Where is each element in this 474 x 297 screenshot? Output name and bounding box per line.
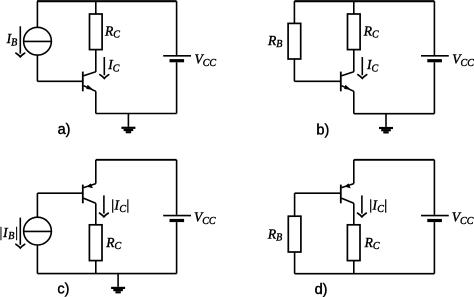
wire RB2 bottom <box>294 252 296 274</box>
wire bottom rail b <box>354 113 435 115</box>
wire top rail b <box>294 0 434 2</box>
wire RC3 bottom <box>95 261 97 274</box>
resistor RB1 <box>288 23 301 59</box>
wire top rail a <box>37 0 177 2</box>
current arrow IC4 <box>358 195 367 216</box>
wire emitter d <box>353 160 355 184</box>
resistor RC2 <box>348 14 361 50</box>
wire current source top a <box>36 1 38 27</box>
wire RB1 top <box>293 1 295 23</box>
ground c <box>111 274 125 294</box>
battery VCC2 <box>421 1 449 114</box>
svg-text:d): d) <box>315 282 328 297</box>
transistor Q2 <box>341 72 354 92</box>
wire RC1 top <box>95 1 97 14</box>
wire current source bottom c <box>36 245 38 274</box>
ground a <box>121 114 135 134</box>
wire collector a <box>95 50 97 72</box>
resistor RC4 <box>347 225 360 261</box>
wire emitter a <box>95 91 97 113</box>
transistor Q4 <box>341 183 354 203</box>
wire bottom rail c <box>37 273 176 275</box>
resistor RB2 <box>288 216 301 252</box>
resistor RC1 <box>90 14 103 50</box>
current arrow IC2 <box>358 57 367 78</box>
wire bottom rail a <box>96 113 177 115</box>
current arrow IC3 <box>100 195 109 216</box>
current source IB1 <box>24 27 52 55</box>
wire top rail d <box>354 159 435 161</box>
wire base a <box>37 80 82 82</box>
battery VCC3 <box>163 160 191 274</box>
transistor Q3 <box>83 183 96 203</box>
svg-text:b): b) <box>316 122 329 138</box>
wire emitter b <box>353 91 355 113</box>
current source IB2 <box>24 217 52 245</box>
svg-text:a): a) <box>58 122 71 138</box>
wire RB2 top <box>294 193 296 216</box>
wire RC2 top <box>353 1 355 14</box>
current arrow IC1 <box>100 57 109 78</box>
resistor RC3 <box>89 225 102 261</box>
svg-text:c): c) <box>57 281 69 297</box>
wire emitter c <box>95 160 97 184</box>
transistor Q1 <box>83 72 96 92</box>
wire RB1 bottom <box>293 59 295 81</box>
wire current source bottom a <box>36 55 38 81</box>
current arrow IB1 <box>16 26 25 57</box>
battery VCC4 <box>421 160 449 274</box>
wire base c <box>37 192 82 194</box>
wire bottom rail d <box>295 273 435 275</box>
ground b <box>379 114 393 134</box>
wire top rail c <box>96 159 177 161</box>
wire collector c <box>95 203 97 225</box>
wire RC4 bottom <box>353 261 355 274</box>
wire base b <box>294 80 340 82</box>
wire current source top c <box>36 193 38 217</box>
wire collector b <box>353 50 355 72</box>
battery VCC1 <box>163 1 191 113</box>
wire base d <box>295 192 340 194</box>
wire collector d <box>353 203 355 225</box>
current arrow IB2 <box>16 218 25 248</box>
